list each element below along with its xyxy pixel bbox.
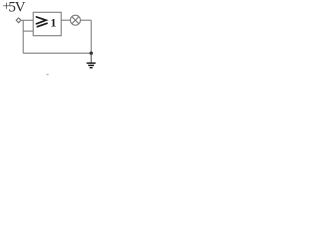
wire right vertical	[90, 20, 92, 53]
lamp X1 cross	[72, 17, 79, 24]
wire gate output to lamp	[61, 19, 70, 21]
terminal (+5V diamond)	[16, 18, 21, 23]
ground bar 1	[87, 62, 96, 64]
ground bar 3	[90, 67, 93, 69]
svg-text:5V: 5V	[8, 0, 25, 16]
ground stem	[90, 53, 92, 62]
lamp X1 circle	[70, 15, 80, 25]
wire gate input 2	[23, 30, 33, 32]
svg-text:1: 1	[50, 15, 56, 29]
OR gate symbol &#8805; strokes	[36, 17, 47, 27]
wire terminal to gate input 1	[21, 19, 33, 21]
ground bar 2	[88, 64, 94, 66]
wire lamp to corner	[80, 19, 91, 21]
OR gate U1 box	[33, 12, 61, 35]
wire branch vertical	[22, 20, 24, 53]
wire bottom return	[23, 52, 91, 54]
stray caption speck	[47, 74, 49, 76]
junction dot	[90, 52, 93, 55]
background	[0, 0, 104, 81]
